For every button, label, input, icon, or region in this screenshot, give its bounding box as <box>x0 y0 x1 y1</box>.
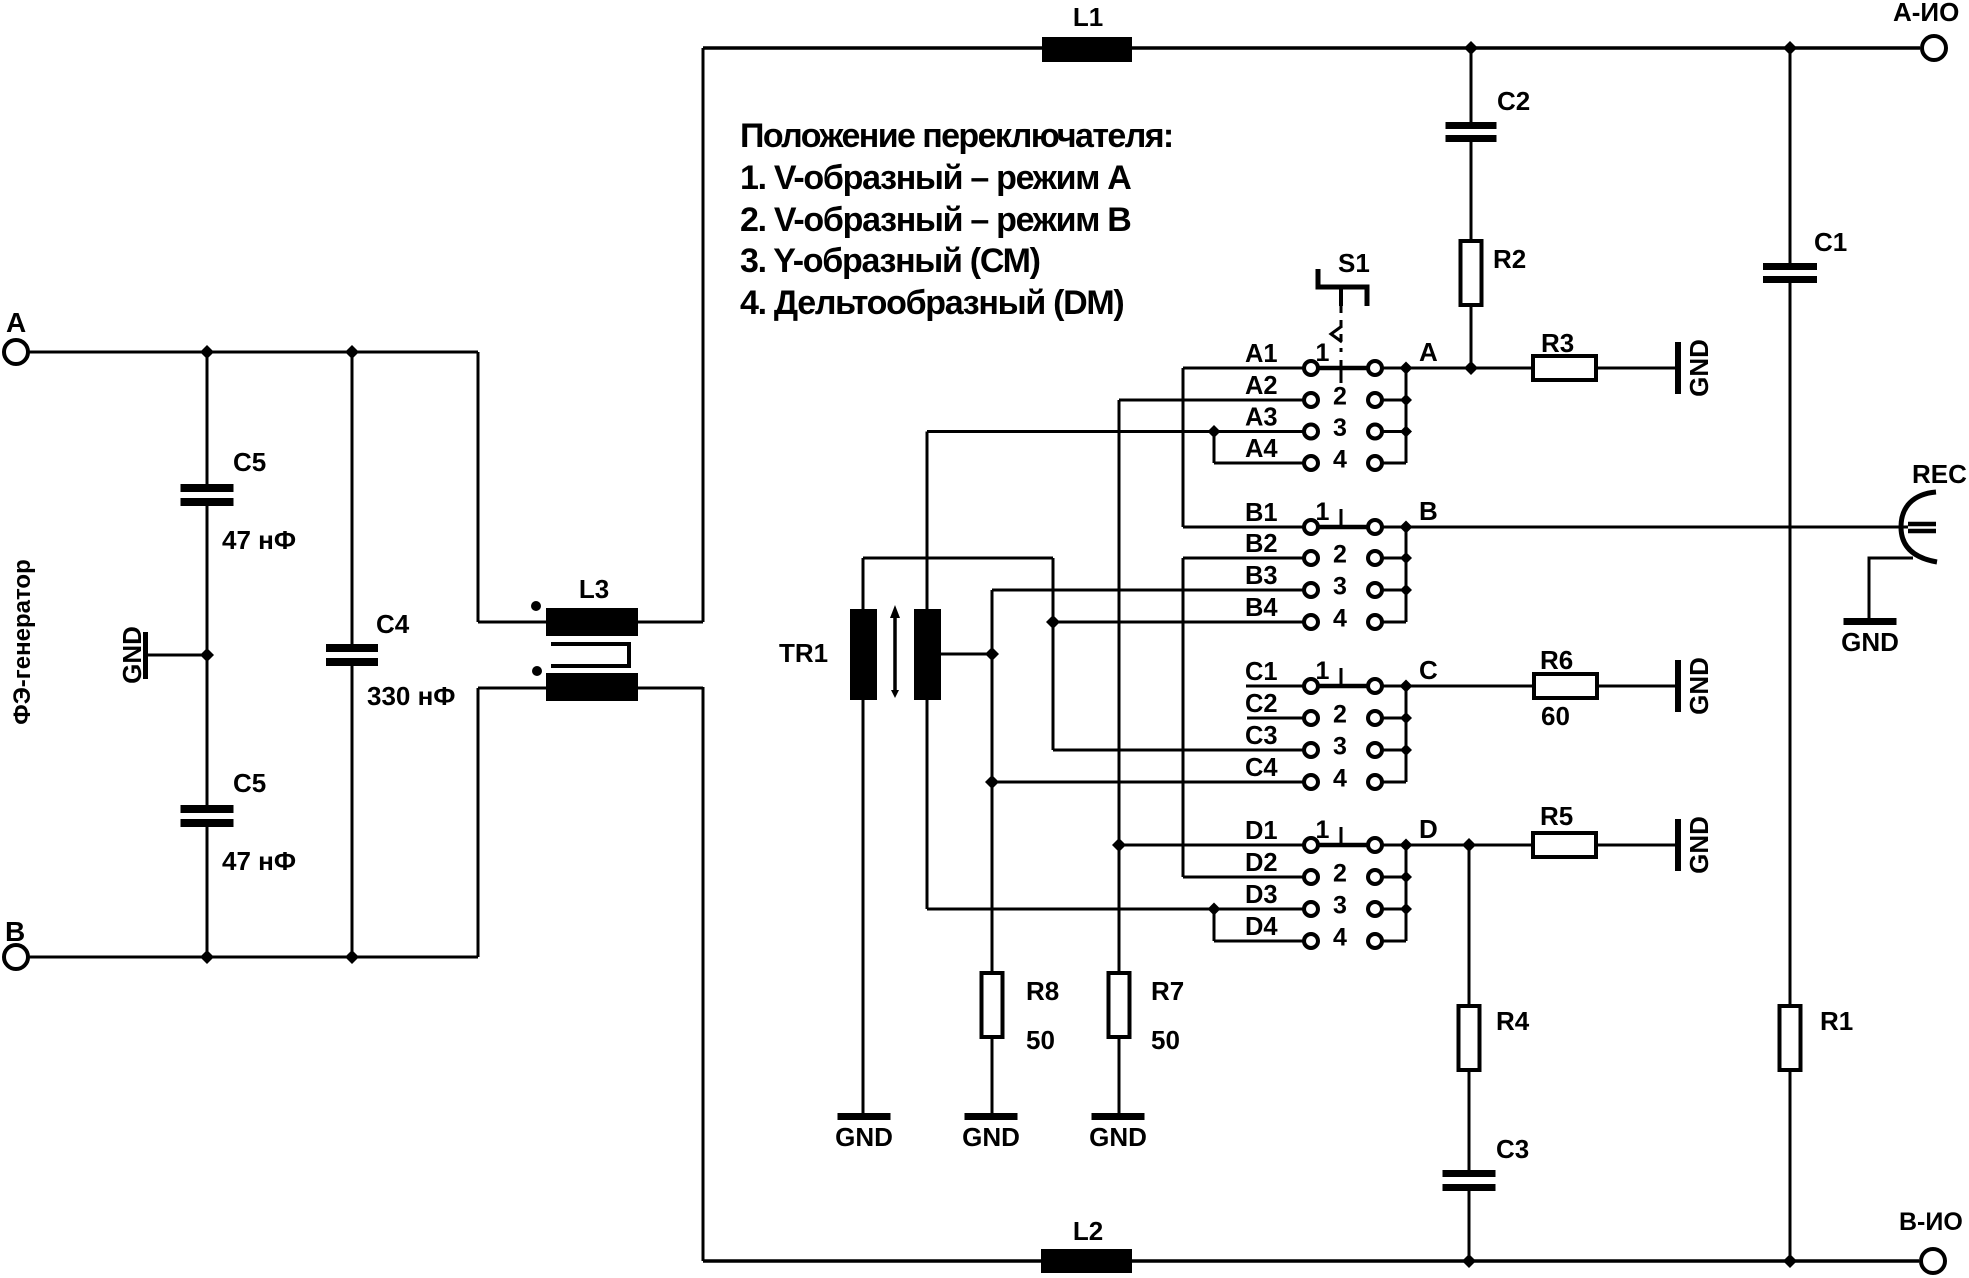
junction net B4 <box>1046 615 1060 629</box>
wire bottom rail B-line <box>703 1259 1919 1263</box>
wire R8 to GND <box>991 1038 994 1113</box>
wire R7 to GND <box>1118 1038 1121 1113</box>
svg-text:R4: R4 <box>1496 1006 1530 1036</box>
svg-text:B3: B3 <box>1245 562 1278 590</box>
junction node A / R2 column <box>1464 361 1478 375</box>
svg-text:Положение переключателя:: Положение переключателя: <box>740 117 1173 155</box>
wire into L3 bottom winding <box>478 687 546 690</box>
ground GND right of R3 <box>1675 342 1681 394</box>
svg-text:B: B <box>1419 496 1438 526</box>
contact pins D row <box>1304 902 1318 916</box>
wire output bus A <box>1405 368 1408 463</box>
wire node D to R4 <box>1468 845 1471 1006</box>
contact bridge B pin1 <box>1318 525 1368 530</box>
REC center pin <box>1908 522 1936 527</box>
svg-text:50: 50 <box>1026 1025 1055 1055</box>
wire input A <box>29 351 478 354</box>
capacitor C1 <box>1763 263 1817 270</box>
wire R6 to GND <box>1599 685 1675 688</box>
svg-text:C: C <box>1419 655 1438 685</box>
svg-text:В-ИО: В-ИО <box>1899 1208 1963 1236</box>
svg-text:R5: R5 <box>1540 801 1573 831</box>
svg-text:D1: D1 <box>1245 817 1278 845</box>
svg-text:GND: GND <box>1684 657 1714 715</box>
wire contact B4 <box>1053 621 1304 624</box>
resistor R4 <box>1459 1006 1480 1070</box>
contact bridge C pin1 <box>1318 684 1368 689</box>
wire L3 top winding to right riser <box>638 621 703 624</box>
wire to bus B <box>1382 589 1406 592</box>
wire contact A4 <box>1214 462 1304 465</box>
ground GND under REC <box>1844 618 1897 625</box>
svg-text:47 нФ: 47 нФ <box>222 525 296 555</box>
svg-text:GND: GND <box>835 1122 893 1152</box>
wire primary-top horizontal run <box>863 557 1053 560</box>
svg-text:L1: L1 <box>1073 2 1103 32</box>
contact bridge A pin1 <box>1318 366 1368 371</box>
svg-text:GND: GND <box>1684 339 1714 397</box>
svg-text:3: 3 <box>1333 573 1347 601</box>
svg-text:B1: B1 <box>1245 499 1278 527</box>
svg-text:3: 3 <box>1333 892 1347 920</box>
svg-text:C5: C5 <box>233 447 266 477</box>
contact pins A row <box>1304 393 1318 407</box>
svg-text:L2: L2 <box>1073 1216 1103 1246</box>
wire contact D2 <box>1183 876 1304 879</box>
transformer TR1 secondary winding <box>914 609 941 700</box>
contact pins A row <box>1304 425 1318 439</box>
wire A corner riser to L3 top winding <box>477 352 480 622</box>
wire contact A1 <box>1183 367 1304 370</box>
junction bus D row3 <box>1400 903 1412 915</box>
capacitor C5 (upper) <box>181 484 234 492</box>
S1 actuator tick bank D <box>1340 827 1343 843</box>
junction D3/D4 <box>1208 903 1221 916</box>
wire vertical net B3/tap/C4/R8 <box>991 590 994 971</box>
resistor R7 <box>1109 973 1130 1037</box>
svg-text:A1: A1 <box>1245 340 1278 368</box>
svg-text:B: B <box>5 916 25 947</box>
resistor R6 <box>1534 674 1597 698</box>
contact pins B row <box>1304 615 1318 629</box>
wire to bus D <box>1382 876 1406 879</box>
contact pins C row <box>1304 679 1318 693</box>
svg-text:2: 2 <box>1333 701 1347 729</box>
wire C4 bottom lead <box>351 666 354 957</box>
svg-text:R8: R8 <box>1026 976 1059 1006</box>
svg-text:A: A <box>1419 337 1438 367</box>
svg-text:3. Y-образный (СМ): 3. Y-образный (СМ) <box>740 242 1040 280</box>
wire contact C4 <box>992 781 1304 784</box>
wire to bus D <box>1382 908 1406 911</box>
wire contact B3 <box>992 589 1304 592</box>
TR1 core arrow <box>893 614 897 692</box>
svg-text:60: 60 <box>1541 701 1570 731</box>
svg-text:A2: A2 <box>1245 372 1278 400</box>
wire link A3-A4 <box>1213 432 1216 464</box>
junction tap node <box>985 647 999 661</box>
contact bridge D pin1 <box>1318 843 1368 848</box>
junction A3/A4 <box>1208 425 1221 438</box>
svg-text:4: 4 <box>1333 605 1347 633</box>
svg-text:C3: C3 <box>1496 1134 1529 1164</box>
wire vertical net A2/D1/R7 <box>1118 400 1121 971</box>
junction bus C row2 <box>1400 712 1412 724</box>
svg-text:L3: L3 <box>579 574 609 604</box>
wire secondary bottom lead to D3 net <box>926 700 929 909</box>
inductor L3 bottom winding <box>546 673 638 701</box>
capacitor C5 (lower) <box>181 805 234 813</box>
svg-text:C4: C4 <box>1245 754 1278 782</box>
svg-text:REC: REC <box>1912 459 1967 489</box>
wire to bus D <box>1382 940 1406 943</box>
contact pins B row <box>1304 520 1318 534</box>
inductor L3 top winding <box>546 608 638 636</box>
svg-text:C1: C1 <box>1245 658 1278 686</box>
capacitor C3 <box>1443 1170 1496 1177</box>
contact pins D row <box>1304 934 1318 948</box>
wire input B <box>29 956 478 959</box>
svg-text:D2: D2 <box>1245 849 1278 877</box>
contact pins C row <box>1304 775 1318 789</box>
resistor R3 <box>1533 356 1596 380</box>
wire C1 to R1 <box>1789 283 1792 1006</box>
wire into L3 top winding <box>478 621 546 624</box>
junction bus B row3 <box>1400 584 1412 596</box>
wire GND tap <box>148 654 207 657</box>
wire contact C3 <box>1053 749 1304 752</box>
junction node D / R4 column <box>1462 838 1476 852</box>
wire node A to R3 <box>1406 367 1533 370</box>
svg-text:C1: C1 <box>1814 227 1847 257</box>
wire node D to R5 <box>1406 844 1533 847</box>
svg-text:1. V-образный – режим А: 1. V-образный – режим А <box>740 159 1131 197</box>
wire contact D4 <box>1214 940 1304 943</box>
ground GND right of R6 <box>1675 660 1681 712</box>
ground GND under TR1 <box>838 1113 891 1120</box>
junction bus B row2 <box>1400 552 1412 564</box>
polarity dot L3 bottom <box>532 666 542 676</box>
junction bottom rail / C3 column <box>1462 1254 1476 1268</box>
wire contact A2 <box>1119 399 1304 402</box>
terminal А-ИО <box>1922 36 1946 60</box>
transformer TR1 primary winding <box>850 609 877 700</box>
junction mid node / GND tap <box>200 648 214 662</box>
svg-text:2: 2 <box>1333 541 1347 569</box>
wire secondary top lead to A3 net <box>926 432 929 610</box>
wire vertical net B4/C3 <box>1052 558 1055 750</box>
terminal В-ИО <box>1921 1249 1945 1273</box>
svg-text:2. V-образный – режим В: 2. V-образный – режим В <box>740 201 1131 239</box>
inductor L2 <box>1041 1249 1132 1273</box>
contact pins C row <box>1304 711 1318 725</box>
capacitor C4 <box>326 644 378 652</box>
wire output bus B <box>1405 527 1408 622</box>
svg-text:4. Дельтообразный (DM): 4. Дельтообразный (DM) <box>740 284 1123 322</box>
svg-text:A4: A4 <box>1245 435 1278 463</box>
resistor R1 <box>1780 1006 1801 1070</box>
junction top rail / C2 column <box>1464 41 1478 55</box>
junction bus B row1 <box>1400 521 1413 534</box>
resistor R5 <box>1533 833 1596 857</box>
wire L3 bottom winding to right riser <box>638 687 703 690</box>
S1 actuator tick bank C <box>1340 668 1343 684</box>
wire C5b bottom lead <box>206 827 209 957</box>
svg-text:3: 3 <box>1333 414 1347 442</box>
wire contact D3 <box>927 908 1304 911</box>
contact pins A row <box>1304 361 1318 375</box>
svg-text:А-ИО: А-ИО <box>1893 0 1959 27</box>
svg-text:2: 2 <box>1333 383 1347 411</box>
junction bottom rail / R1 column <box>1783 1254 1797 1268</box>
wire output bus C <box>1405 686 1408 782</box>
wire to bus C <box>1382 749 1406 752</box>
ground GND right of R5 <box>1675 819 1681 871</box>
contact pins C row <box>1304 743 1318 757</box>
svg-text:GND: GND <box>1089 1122 1147 1152</box>
wire C5a to mid node <box>206 506 209 655</box>
svg-text:D3: D3 <box>1245 881 1278 909</box>
wire to bus A <box>1382 367 1406 370</box>
junction bus A row2 <box>1400 394 1412 406</box>
wire R4 to C3 <box>1468 1071 1471 1170</box>
svg-text:C4: C4 <box>376 609 410 639</box>
wire B corner riser to L3 bottom winding <box>477 688 480 957</box>
wire R3 to GND <box>1598 367 1675 370</box>
terminal A input <box>4 340 28 364</box>
contact pins D row <box>1304 870 1318 884</box>
svg-text:GND: GND <box>1684 816 1714 874</box>
resistor R8 <box>982 973 1003 1037</box>
wire C3 to bottom rail <box>1468 1191 1471 1261</box>
svg-text:4: 4 <box>1333 924 1347 952</box>
wire to bus A <box>1382 430 1406 433</box>
junction net C4 <box>985 775 999 789</box>
wire to bus C <box>1382 781 1406 784</box>
svg-text:R2: R2 <box>1493 244 1526 274</box>
wire node C to R6 <box>1406 685 1534 688</box>
wire contact B1 <box>1183 526 1304 529</box>
wire contact A3 <box>927 430 1304 433</box>
junction top rail / C1 column <box>1783 41 1797 55</box>
contact pins B row <box>1304 551 1318 565</box>
capacitor C2 <box>1446 122 1497 129</box>
svg-text:GND: GND <box>1841 627 1899 657</box>
ground GND left mid <box>143 632 148 679</box>
svg-text:B4: B4 <box>1245 594 1278 622</box>
junction bus C row1 <box>1400 680 1413 693</box>
svg-text:330 нФ: 330 нФ <box>367 681 456 711</box>
wire contact D1 <box>1119 844 1304 847</box>
wire top rail to C2 <box>1470 48 1473 122</box>
wire TR1 center tap <box>941 653 992 656</box>
svg-text:R1: R1 <box>1820 1006 1853 1036</box>
svg-text:GND: GND <box>962 1122 1020 1152</box>
svg-text:B2: B2 <box>1245 530 1278 558</box>
svg-text:50: 50 <box>1151 1025 1180 1055</box>
wire left riser lower (L3 bottom winding to bottom rail) <box>702 687 705 1261</box>
junction bus D row2 <box>1400 871 1412 883</box>
contact pins D row <box>1304 838 1318 852</box>
junction B / C5 column <box>200 950 214 964</box>
wire contact C2 <box>1247 717 1304 720</box>
svg-text:A: A <box>6 307 26 338</box>
wire output bus D <box>1405 845 1408 941</box>
ground GND under R8 <box>965 1113 1018 1120</box>
wire left riser upper (top rail to L3 top winding) <box>702 48 705 622</box>
svg-text:D4: D4 <box>1245 913 1278 941</box>
svg-text:TR1: TR1 <box>779 638 828 668</box>
svg-text:4: 4 <box>1333 765 1347 793</box>
svg-text:C5: C5 <box>233 768 266 798</box>
svg-text:C2: C2 <box>1245 690 1278 718</box>
wire link D3-D4 <box>1213 909 1216 941</box>
polarity dot L3 top <box>531 601 541 611</box>
svg-text:4: 4 <box>1333 446 1347 474</box>
wire to bus A <box>1382 399 1406 402</box>
svg-text:R3: R3 <box>1541 328 1574 358</box>
junction net D1 <box>1112 838 1126 852</box>
junction bus D row1 <box>1400 839 1413 852</box>
wire mid node to C5b <box>206 655 209 805</box>
svg-text:C3: C3 <box>1245 722 1278 750</box>
svg-text:2: 2 <box>1333 860 1347 888</box>
wire link B2-D2 <box>1182 558 1185 877</box>
svg-text:C2: C2 <box>1497 86 1530 116</box>
wire to bus A <box>1382 462 1406 465</box>
wire top rail to C1 <box>1789 48 1792 263</box>
wire contact C1 <box>1246 685 1304 688</box>
svg-text:R6: R6 <box>1540 645 1573 675</box>
junction bus A row3 <box>1400 426 1412 438</box>
junction A / C4 column <box>345 345 359 359</box>
resistor R2 <box>1461 241 1482 305</box>
wire to bus C <box>1382 717 1406 720</box>
svg-text:GND: GND <box>117 626 147 684</box>
junction bus A row1 <box>1400 362 1413 375</box>
S1 actuator tick bank B <box>1340 509 1343 525</box>
terminal B input <box>4 945 28 969</box>
junction B / C4 column <box>345 950 359 964</box>
svg-text:ФЭ-генератор: ФЭ-генератор <box>9 559 36 725</box>
wire to bus D <box>1382 844 1406 847</box>
contact pins B row <box>1304 583 1318 597</box>
wire TR1 primary top lead <box>862 558 865 609</box>
inductor L1 <box>1042 37 1132 62</box>
wire contact B2 <box>1183 557 1304 560</box>
ground GND under R7 <box>1092 1113 1145 1120</box>
svg-text:A3: A3 <box>1245 404 1278 432</box>
wire to bus B <box>1382 526 1406 529</box>
wire to bus C <box>1382 685 1406 688</box>
wire R5 to GND <box>1598 844 1675 847</box>
wire TR1 primary bottom to GND <box>862 700 865 1113</box>
junction bus C row3 <box>1400 744 1412 756</box>
svg-text:R7: R7 <box>1151 976 1184 1006</box>
svg-text:D: D <box>1419 814 1438 844</box>
contact pins A row <box>1304 456 1318 470</box>
wire R1 to bottom rail <box>1789 1071 1792 1261</box>
L3 core link <box>551 644 629 666</box>
wire link A1-B1 <box>1182 368 1185 527</box>
wire REC ground tab <box>1869 558 1913 621</box>
wire to bus B <box>1382 621 1406 624</box>
svg-text:S1: S1 <box>1338 248 1370 278</box>
junction A / C5 column <box>200 345 214 359</box>
wire C5a top lead <box>206 352 209 484</box>
svg-text:47 нФ: 47 нФ <box>222 846 296 876</box>
wire C2 to R2 <box>1470 142 1473 241</box>
wire to bus B <box>1382 557 1406 560</box>
svg-text:3: 3 <box>1333 733 1347 761</box>
wire top rail A-line <box>703 46 1920 50</box>
wire R2 to node A <box>1470 306 1473 368</box>
wire node B to REC <box>1406 526 1908 529</box>
wire C4 top lead <box>351 352 354 644</box>
